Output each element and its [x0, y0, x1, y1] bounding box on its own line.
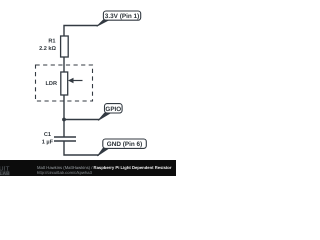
svg-text:GND (Pin 6): GND (Pin 6) [107, 141, 143, 148]
light arrow into LDR [68, 78, 83, 83]
wire R1 to LDR [63, 57, 65, 72]
net flag 3.3V (Pin 1) tail [97, 20, 110, 27]
dashed enclosure box around LDR [36, 65, 93, 101]
svg-text:3.3V (Pin 1): 3.3V (Pin 1) [105, 13, 139, 20]
capacitor C1 plates [54, 137, 76, 141]
svg-text:http://circuitlab.com/c/kpwha3: http://circuitlab.com/c/kpwha3 [37, 170, 93, 175]
net flag GPIO tail [98, 113, 110, 120]
svg-text:2.2 kΩ: 2.2 kΩ [39, 45, 56, 52]
svg-text:GPIO: GPIO [105, 106, 121, 113]
wire LDR down to node [63, 95, 65, 120]
footer bar [0, 160, 176, 176]
wire node to GPIO flag [64, 119, 100, 121]
wire top horizontal from R1 to 3.3V flag [64, 26, 98, 37]
svg-text:R1: R1 [48, 39, 55, 45]
wire node to capacitor [63, 120, 65, 137]
CircuitLab logo (clipped) [0, 165, 10, 177]
svg-text:C1: C1 [44, 132, 51, 138]
node junction [62, 118, 66, 122]
net flag 3.3V (Pin 1) [103, 11, 140, 20]
wire capacitor to GND flag [64, 142, 99, 156]
svg-text:LAB: LAB [0, 171, 10, 176]
svg-text:LDR: LDR [46, 81, 58, 87]
resistor R1 [61, 36, 69, 57]
net flag GPIO [105, 104, 123, 113]
LDR body [61, 72, 68, 95]
net flag GND tail [98, 148, 109, 156]
net flag GND (Pin 6) [103, 139, 147, 148]
svg-text:1 µF: 1 µF [42, 139, 54, 145]
